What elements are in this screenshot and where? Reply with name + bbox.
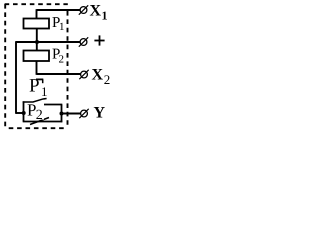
wire stem below resistor P2 (36, 61, 38, 75)
wire left riser from + down to Y (15, 41, 17, 114)
wire Y left segment (16, 112, 24, 114)
potentiometer P2 top edge (27, 104, 62, 106)
svg-text:1: 1 (41, 84, 48, 99)
terminal + (80, 39, 87, 46)
svg-text:X: X (90, 3, 102, 20)
wire X2 horizontal (37, 73, 81, 75)
junction node at potentiometer left edge (22, 111, 26, 115)
potentiometer P2 right edge (61, 105, 63, 123)
wire stem resistor P1 to resistor P2 (36, 29, 38, 51)
junction node on + wire (35, 40, 39, 44)
dashed enclosure border: bottom edge (9, 127, 68, 129)
svg-text:2: 2 (104, 72, 110, 87)
svg-text:1: 1 (59, 21, 65, 33)
dashed enclosure border: top edge (5, 3, 68, 5)
label P1 (lower, white background) (29, 76, 48, 100)
potentiometer P2 left edge (23, 101, 25, 121)
label + (94, 40, 104, 42)
svg-text:2: 2 (36, 108, 43, 123)
label P2 (lower, white background) (27, 101, 45, 124)
potentiometer P2 bottom edge (23, 121, 63, 123)
dashed enclosure border: left edge (4, 4, 6, 127)
resistor box P2 (24, 51, 50, 62)
wire + horizontal (16, 41, 80, 43)
potentiometer wiper arm (23, 99, 44, 102)
wire X1 horizontal (37, 9, 81, 11)
junction node at potentiometer right edge (60, 112, 64, 116)
top bar extension of P (36, 78, 43, 80)
svg-text:Y: Y (94, 105, 106, 122)
adjustment slash through bottom edge (30, 118, 49, 125)
dashed enclosure border: right edge (67, 11, 69, 128)
wire Y right segment (62, 113, 81, 115)
wiper arrow tip (43, 98, 46, 100)
svg-text:1: 1 (102, 9, 108, 23)
svg-text:2: 2 (59, 54, 65, 66)
terminal X2 (81, 71, 88, 78)
svg-text:X: X (92, 67, 104, 84)
wire stem to resistor P1 (36, 9, 38, 18)
terminal X1 (80, 7, 87, 14)
resistor box P1 (24, 19, 50, 29)
terminal Y (81, 110, 88, 117)
